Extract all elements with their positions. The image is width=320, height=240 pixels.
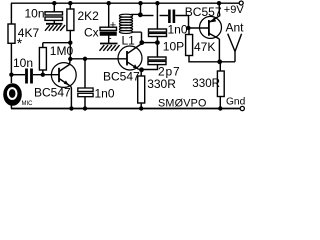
wire 1M0 bottom to base wire xyxy=(42,70,44,75)
wire 1M0 top horizontal xyxy=(43,42,71,44)
wire mic node to 10n input cap xyxy=(11,74,25,76)
node 330R right/rail xyxy=(218,106,222,110)
wire mic to ground rail xyxy=(10,105,12,109)
wire left vertical from rail to 4K7 xyxy=(10,3,12,24)
svg-text:+9V: +9V xyxy=(224,4,245,16)
wire 1M0 top lead xyxy=(42,43,44,48)
svg-text:330R: 330R xyxy=(192,77,220,90)
ground symbol under Cx xyxy=(100,44,120,51)
svg-text:47K: 47K xyxy=(194,40,215,54)
wire 2K2 to collector node Q1 xyxy=(69,31,71,60)
wire top +9V rail xyxy=(11,2,239,4)
svg-text:Cx: Cx xyxy=(84,26,99,40)
wire L1 bottom to collector node xyxy=(141,32,143,42)
wire 1n0 to BC557 base corner xyxy=(175,16,188,29)
wire 330R left to rail xyxy=(140,103,142,109)
transistor Q3 BC557 xyxy=(200,16,222,40)
resistor R4 330R left xyxy=(138,76,145,103)
wire 330R right to rail xyxy=(219,97,221,109)
node L1 top / 1n0 feed xyxy=(138,12,143,17)
svg-text:L1: L1 xyxy=(122,34,136,48)
terminal Gnd open circle xyxy=(240,106,244,110)
node emitter/330R/2p7 xyxy=(139,67,144,72)
wire Q3 collector down xyxy=(218,39,220,62)
wire bottom ground rail xyxy=(11,108,241,110)
node rail/2K2 xyxy=(68,1,72,5)
capacitor Cx electrolytic xyxy=(100,27,117,30)
svg-text:MIC: MIC xyxy=(22,101,34,107)
resistor R3 1M0 xyxy=(39,48,46,71)
wire 330R right top lead xyxy=(219,62,221,71)
capacitor C3 1n0 mid xyxy=(78,88,93,91)
node 330R left/rail xyxy=(139,106,143,110)
svg-text:1n0: 1n0 xyxy=(168,23,188,37)
node rail/Cx xyxy=(107,1,111,5)
wire 10P to node xyxy=(156,37,158,43)
node 1n0 coupling junction xyxy=(83,57,87,61)
capacitor C2 10n input xyxy=(25,69,28,84)
wire 4K7 to mic node xyxy=(10,43,12,83)
transistor Q1 BC547 xyxy=(51,63,76,88)
node Q1 collector / base wire Q2 xyxy=(68,57,72,61)
wire rail to 10n top xyxy=(53,3,55,12)
node 1M0/2K2 junction xyxy=(68,41,72,45)
node emitter/rail xyxy=(217,1,221,5)
wire 47K bottom to output node xyxy=(189,56,235,62)
wire Q1 emitter to ground rail xyxy=(70,87,72,109)
transistor Q2 BC547 xyxy=(118,44,142,70)
node 1M0/base junction xyxy=(41,73,45,77)
svg-text:*: * xyxy=(17,35,23,51)
svg-text:BC547: BC547 xyxy=(103,70,140,84)
wire 2p7 bottom to emitter node xyxy=(142,65,158,70)
wire Cx to ground xyxy=(108,36,110,44)
svg-text:Ant: Ant xyxy=(226,21,245,35)
wire 47K top lead xyxy=(188,28,190,35)
wire Q2 base horizontal xyxy=(70,58,127,60)
svg-text:SMØVPO: SMØVPO xyxy=(158,98,207,110)
node emitter/rail xyxy=(69,106,73,110)
wire collector node to 10P node xyxy=(142,42,158,44)
svg-text:1M0: 1M0 xyxy=(50,44,74,58)
svg-text:BC547: BC547 xyxy=(34,85,71,99)
capacitor C1 10n decoupling xyxy=(45,12,63,15)
node base/47K junction xyxy=(186,26,190,30)
wire node to 330R left xyxy=(140,70,142,76)
wire node to 2p7 xyxy=(156,43,158,57)
wire rail to 10P xyxy=(156,3,158,29)
wire rail to Cx xyxy=(108,3,110,27)
wire 10n bottom to ground xyxy=(53,21,55,24)
wire 10n to Q1 base xyxy=(33,74,59,76)
wire Q1 collector up xyxy=(69,59,72,65)
node output junction xyxy=(217,59,222,64)
wire rail to 2K2 xyxy=(69,3,71,9)
terminal +9V open circle xyxy=(239,1,243,5)
svg-text:10n: 10n xyxy=(25,7,45,21)
resistor R1 4K7 xyxy=(8,24,15,43)
antenna Ant xyxy=(228,34,242,62)
wire 1n0 bottom to rail xyxy=(84,97,86,109)
ground symbol under 10n xyxy=(45,24,65,31)
node rail/10P xyxy=(155,1,159,5)
wire 1n0 feed horizontal with hop xyxy=(140,15,153,17)
svg-text:10P: 10P xyxy=(163,40,184,54)
node rail/L1 line xyxy=(138,1,142,5)
node 10P/2p7 xyxy=(155,40,160,45)
svg-text:1n0: 1n0 xyxy=(95,86,115,100)
wire 1n0 top lead xyxy=(84,59,86,88)
node 1n0/rail xyxy=(83,106,87,110)
wire rail down to L1 top node xyxy=(140,3,142,15)
svg-text:2K2: 2K2 xyxy=(78,9,100,23)
svg-text:330R: 330R xyxy=(147,77,176,91)
node Q2 collector junction xyxy=(139,40,144,45)
node rail/10n decoupling xyxy=(52,1,56,5)
capacitor C5 10P xyxy=(149,29,167,32)
svg-text:10n: 10n xyxy=(13,56,33,70)
microphone MIC xyxy=(3,83,22,106)
inductor L1 xyxy=(119,14,141,33)
node mic/cap junction xyxy=(9,73,13,77)
resistor R5 47K xyxy=(186,35,193,56)
wire Q3 emitter to rail xyxy=(218,3,221,15)
capacitor C4 1n0 right xyxy=(168,10,171,24)
svg-text:BC557: BC557 xyxy=(185,5,222,19)
wire base wire Q3 xyxy=(189,27,209,29)
resistor R2 2K2 xyxy=(67,9,74,31)
svg-text:Gnd: Gnd xyxy=(226,97,245,108)
wire Q2 emitter to node xyxy=(139,68,142,70)
resistor R6 330R right xyxy=(217,71,224,97)
capacitor C6 2p7 xyxy=(148,57,166,60)
